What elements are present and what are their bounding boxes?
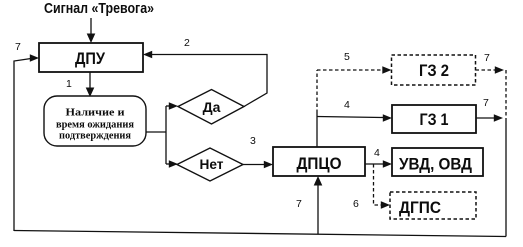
wire right collector dashed part	[505, 70, 507, 118]
arrowhead into ДПЦО bottom	[314, 176, 323, 186]
svg-text:2: 2	[184, 37, 190, 49]
wire condition to split	[146, 131, 166, 133]
svg-text:3: 3	[250, 135, 256, 147]
wire riser solid	[316, 113, 318, 147]
arrowhead into ГЗ2 left	[382, 66, 391, 74]
svg-text:ДПУ: ДПУ	[75, 49, 105, 68]
arrow into Да	[166, 102, 178, 110]
wire dashed drop to ДГПС	[374, 164, 383, 205]
wire right collector solid part	[505, 118, 507, 237]
svg-text:7: 7	[483, 97, 489, 109]
block УВД, ОВД	[392, 148, 483, 176]
arrowhead at right collector (from ГЗ2)	[495, 66, 504, 74]
svg-text:6: 6	[353, 198, 359, 210]
label Сигнал «Тревога»	[44, 1, 154, 17]
wire ГЗ1 out	[476, 117, 495, 119]
block condition (rounded)	[44, 96, 146, 146]
svg-text:подтверждения: подтверждения	[59, 130, 131, 142]
wire signal to ДПУ	[90, 18, 92, 35]
svg-text:Сигнал «Тревога»: Сигнал «Тревога»	[44, 1, 154, 17]
svg-text:ГЗ 2: ГЗ 2	[419, 61, 449, 80]
wire ГЗ2 out dashed	[476, 69, 497, 71]
wire bus up to ДПЦО	[317, 184, 319, 234]
wire feedback left side (bus to ДПУ)	[14, 59, 31, 232]
decision Нет	[177, 148, 243, 181]
arrowhead into ДПУ top	[87, 34, 96, 44]
wire ДПУ to condition box	[89, 72, 91, 89]
svg-text:ГЗ 1: ГЗ 1	[420, 110, 449, 129]
svg-text:7: 7	[296, 198, 302, 210]
block ДГПС (dashed)	[390, 192, 476, 219]
svg-text:7: 7	[484, 52, 490, 64]
svg-text:ДПЦО: ДПЦО	[297, 154, 342, 173]
arrowhead at right collector (from ГЗ1)	[494, 114, 503, 122]
svg-text:ДГПС: ДГПС	[399, 199, 441, 217]
arrowhead into ДПУ right	[143, 51, 152, 59]
arrowhead into ДПЦО left	[264, 161, 273, 169]
arrowhead into УВД,ОВД left	[383, 160, 392, 168]
svg-text:1: 1	[66, 78, 72, 90]
svg-text:Наличие и: Наличие и	[66, 107, 126, 119]
arrowhead into ГЗ1 left	[383, 114, 392, 122]
block ДПЦО	[273, 147, 365, 176]
svg-text:Нет: Нет	[200, 156, 224, 172]
block ДПУ	[39, 43, 143, 72]
wire bottom bus	[14, 231, 506, 237]
svg-text:7: 7	[15, 41, 21, 53]
arrow into Нет	[166, 160, 178, 168]
block ГЗ 2 (dashed)	[392, 55, 476, 85]
svg-text:4: 4	[374, 147, 380, 159]
wire Нет to ДПЦО	[243, 164, 265, 166]
arrowhead into ДГПС left	[381, 201, 390, 209]
arrowhead into condition box top	[86, 88, 95, 98]
arrowhead into ДПУ left	[30, 54, 39, 62]
wire split vertical	[165, 106, 167, 164]
svg-text:Да: Да	[203, 99, 221, 115]
svg-text:4: 4	[344, 99, 350, 111]
block ГЗ 1	[392, 105, 476, 133]
decision Да	[178, 90, 244, 125]
wire ДПЦО to УВД,ОВД	[365, 163, 384, 165]
wire Да back to ДПУ	[151, 55, 267, 107]
wire 4 to ГЗ1	[317, 117, 384, 118]
wire riser dashed	[316, 70, 318, 113]
svg-text:УВД, ОВД: УВД, ОВД	[399, 156, 472, 174]
wire 5 dashed to ГЗ2	[317, 69, 384, 71]
svg-text:5: 5	[344, 51, 350, 63]
